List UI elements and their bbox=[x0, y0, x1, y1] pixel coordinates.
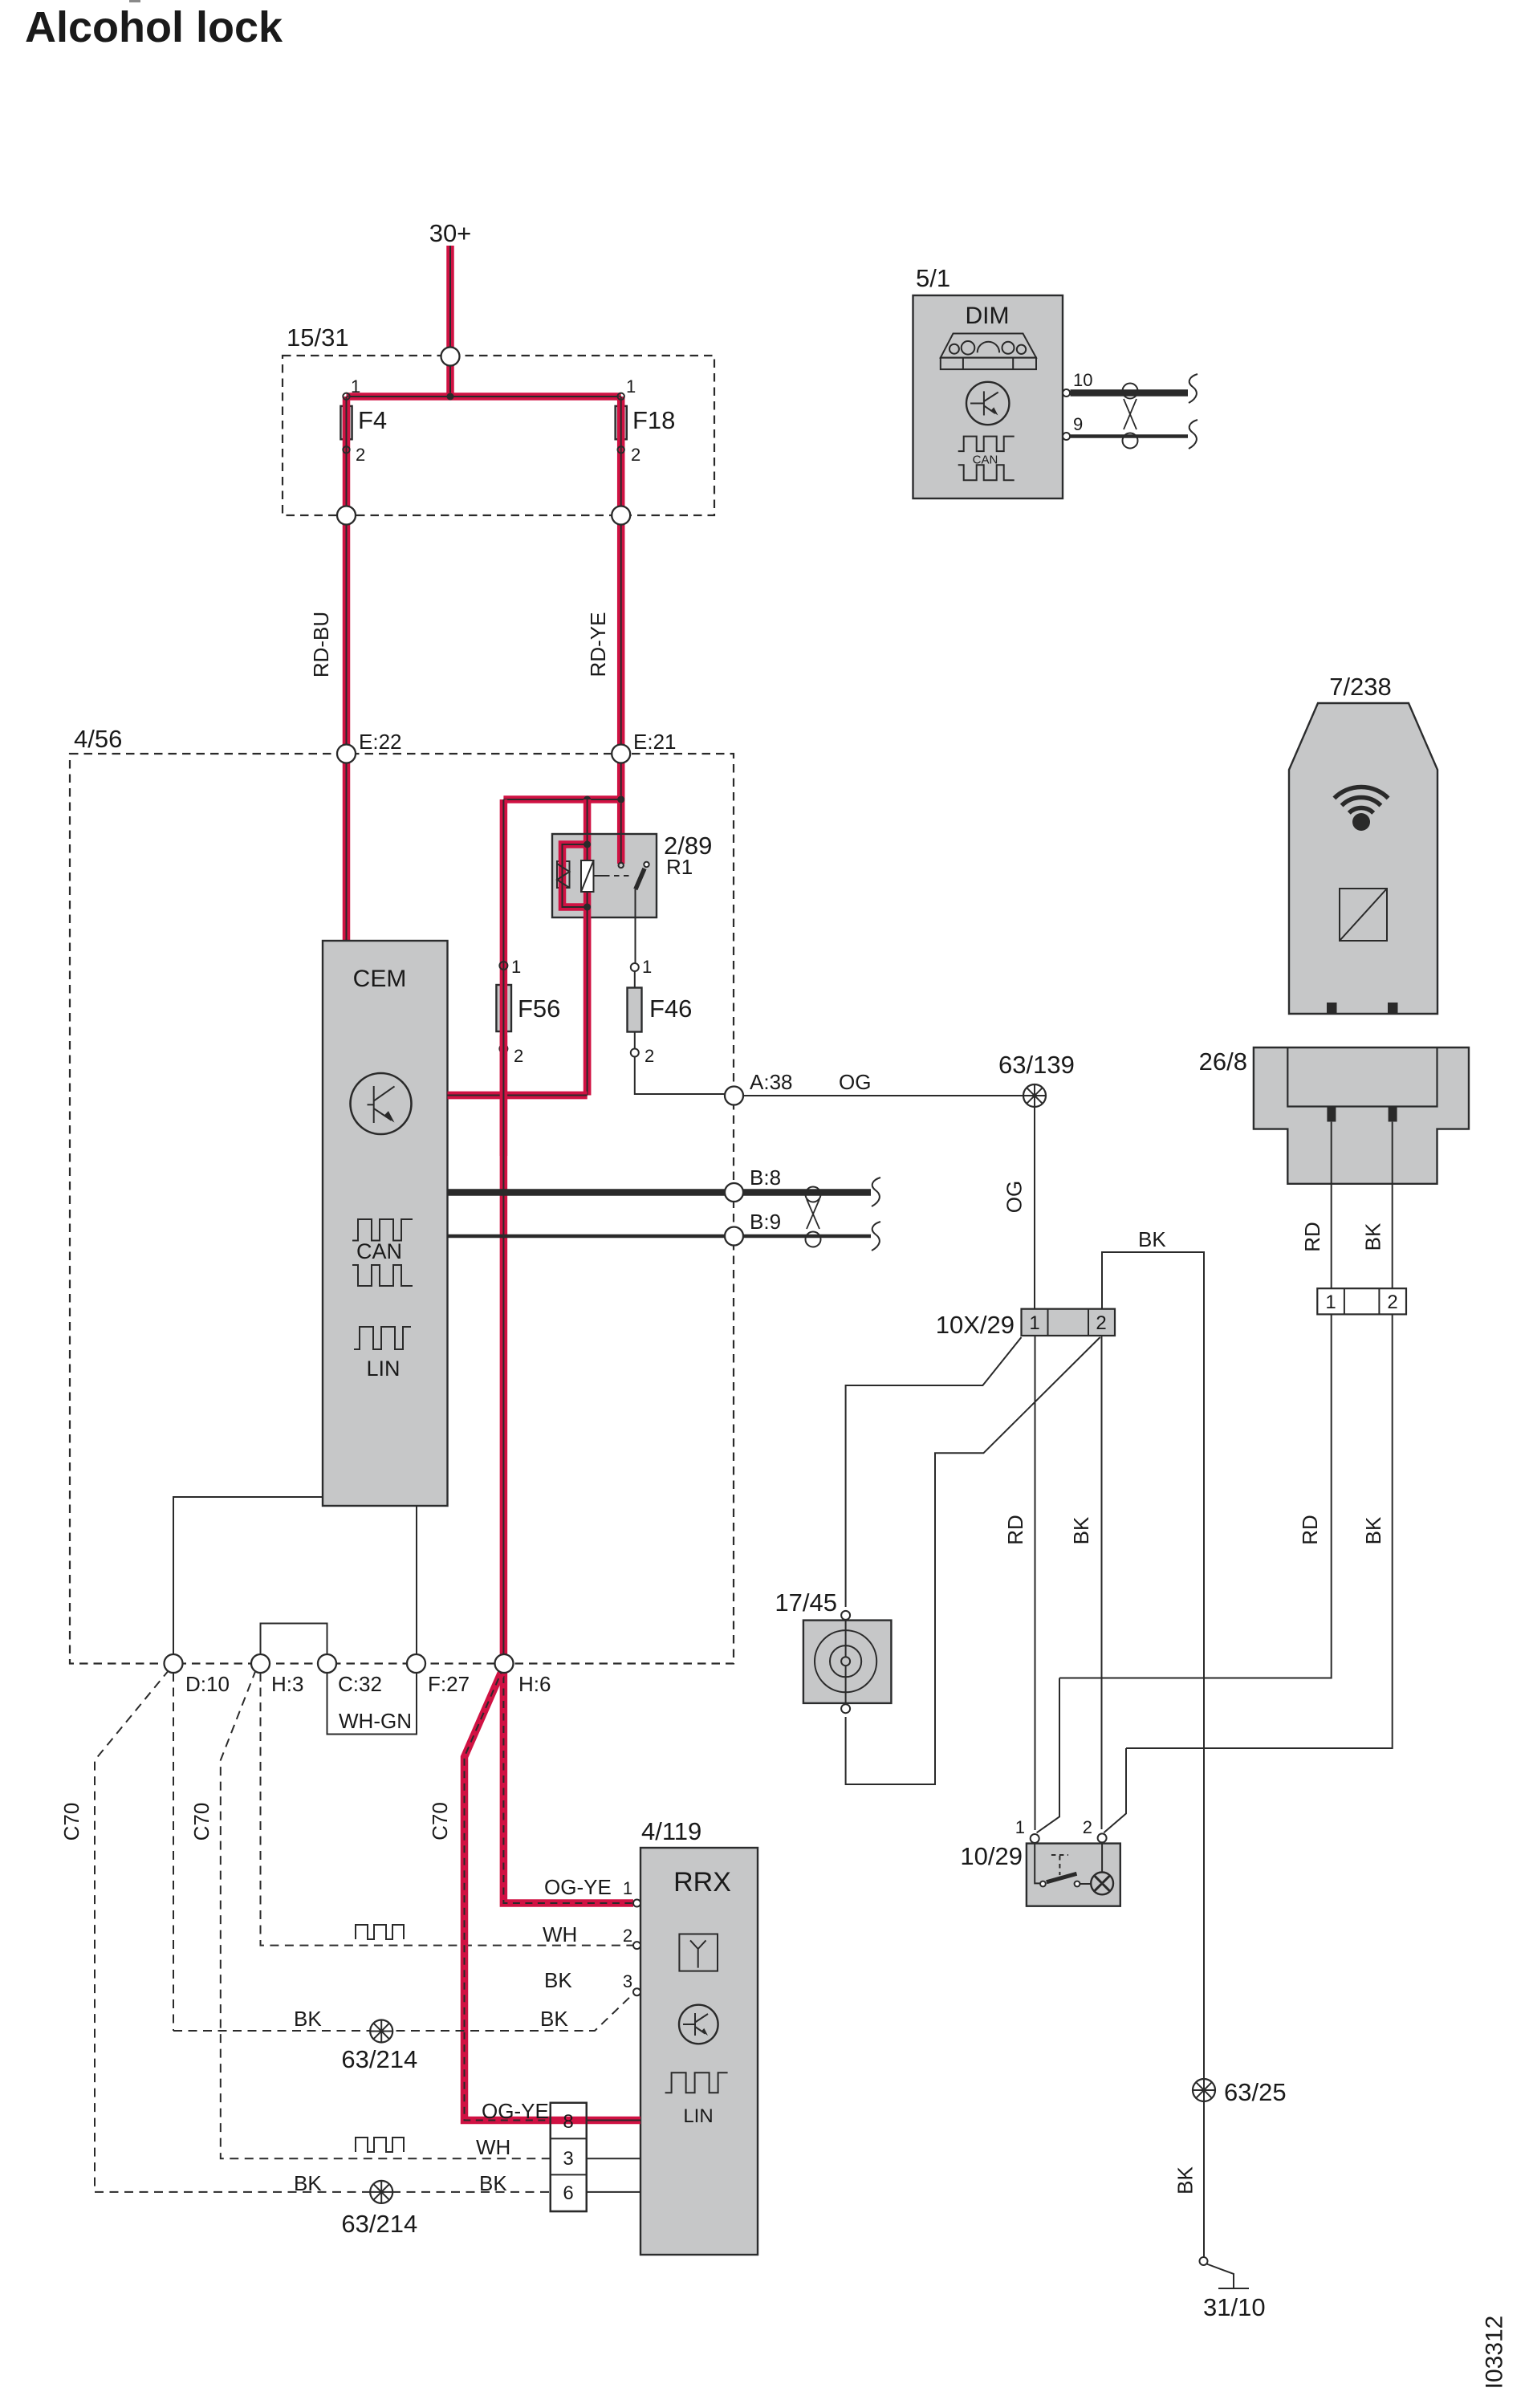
svg-text:RRX: RRX bbox=[673, 1867, 731, 1898]
svg-text:2: 2 bbox=[356, 445, 365, 465]
svg-text:2: 2 bbox=[514, 1046, 523, 1066]
twisted pair marker DIM bbox=[1123, 384, 1138, 449]
svg-text:WH-GN: WH-GN bbox=[339, 1709, 412, 1733]
svg-text:I03312: I03312 bbox=[1482, 2316, 1508, 2390]
svg-text:2: 2 bbox=[631, 445, 640, 465]
svg-text:A:38: A:38 bbox=[750, 1070, 793, 1094]
svg-text:5/1: 5/1 bbox=[916, 264, 950, 292]
wire OG-YE C70 branch from H:6 (RD) bbox=[465, 1667, 551, 2121]
svg-text:B:9: B:9 bbox=[750, 1210, 781, 1234]
svg-text:1: 1 bbox=[511, 957, 521, 977]
svg-text:RD: RD bbox=[1298, 1515, 1322, 1545]
relay actuator dashed link bbox=[594, 875, 605, 877]
wire pin 8 (RD) through strip to RRX bbox=[551, 2117, 640, 2125]
connector B:9 bbox=[725, 1227, 743, 1246]
junction dot bbox=[617, 796, 624, 803]
splice 63/214 (lower) bbox=[370, 2181, 392, 2203]
svg-text:C70: C70 bbox=[189, 1803, 213, 1841]
svg-text:BK: BK bbox=[1069, 1516, 1093, 1544]
7/238 radio icon bbox=[1334, 787, 1388, 812]
svg-text:D:10: D:10 bbox=[185, 1672, 230, 1696]
svg-text:CAN: CAN bbox=[356, 1239, 402, 1263]
connector B:8 bbox=[725, 1183, 743, 1202]
junction circles on 15/31 bottom edge bbox=[337, 506, 356, 525]
pin 9 bbox=[1063, 433, 1070, 440]
7/238 mirror square icon bbox=[1340, 889, 1387, 941]
svg-text:WH: WH bbox=[476, 2135, 510, 2159]
relay contact pin (from F18) bbox=[619, 863, 624, 868]
svg-text:E:21: E:21 bbox=[633, 730, 677, 754]
connector C:32 bbox=[318, 1654, 336, 1673]
wire F:27 to CEM bbox=[416, 1506, 417, 1654]
fuse F4 bbox=[340, 406, 352, 439]
svg-text:1: 1 bbox=[351, 376, 360, 397]
svg-text:BK: BK bbox=[294, 2007, 322, 2031]
RRX pin 2 bbox=[633, 1942, 640, 1949]
wire CAN low from pin 9 bbox=[1071, 434, 1189, 438]
svg-text:E:22: E:22 bbox=[359, 730, 402, 754]
svg-text:BK: BK bbox=[479, 2171, 507, 2195]
wire relay feed bus (RD) bbox=[503, 795, 620, 803]
svg-text:BK: BK bbox=[544, 1968, 572, 1992]
svg-text:1: 1 bbox=[642, 957, 652, 977]
svg-text:BK: BK bbox=[1138, 1227, 1166, 1251]
svg-text:Alcohol lock: Alcohol lock bbox=[25, 3, 283, 51]
svg-text:BK: BK bbox=[1361, 1222, 1385, 1251]
svg-text:2: 2 bbox=[1096, 1312, 1106, 1334]
svg-text:3: 3 bbox=[623, 1971, 632, 1991]
LIN wave on WH wire bbox=[356, 1925, 404, 1939]
wire 26/8 pin2 (BK) down bbox=[1126, 1122, 1393, 1748]
svg-text:BK: BK bbox=[294, 2171, 322, 2195]
wire OG from 63/139 to 10X/29 bbox=[1034, 1107, 1035, 1309]
svg-text:1: 1 bbox=[1015, 1817, 1025, 1837]
wire 10X/29 pin2 to 17/45 return bbox=[846, 1337, 1100, 1784]
svg-text:RD: RD bbox=[1300, 1222, 1324, 1252]
wire CEM relay feed redraw (RD core over crossing) bbox=[448, 1092, 588, 1100]
wire relay coil branch (RD) bbox=[448, 799, 588, 1096]
relay 2/89 R1 bbox=[552, 832, 712, 1096]
wire CAN high from pin 10 bbox=[1071, 389, 1189, 397]
RRX pin strip 8/3/6 bbox=[551, 2103, 587, 2211]
svg-text:BK: BK bbox=[1361, 1516, 1385, 1544]
26/8 pin 2 tab bbox=[1389, 1107, 1397, 1122]
relay armature resistor bbox=[581, 860, 594, 892]
wire C:32 to F:27 (WH-GN) bbox=[327, 1673, 417, 1735]
svg-text:F56: F56 bbox=[518, 995, 560, 1023]
cable break squiggle pin9 bbox=[1189, 420, 1198, 449]
svg-text:OG: OG bbox=[839, 1070, 871, 1094]
wire BK from 10X/29 pin2 up and over to 63/25 bbox=[1102, 1252, 1204, 2079]
ECU box 4/56 (dashed) bbox=[70, 754, 734, 1664]
RRX antenna icon bbox=[679, 1934, 718, 1971]
svg-text:63/25: 63/25 bbox=[1224, 2078, 1287, 2106]
wire 30+ feed (RD) bbox=[446, 246, 454, 397]
svg-text:1: 1 bbox=[1029, 1312, 1039, 1334]
wire pin 6 strip to RRX (BK) bbox=[587, 2191, 640, 2193]
wire 26/8 pin1 (RD) down bbox=[1059, 1122, 1332, 1678]
7/238 pin tabs bbox=[1327, 1003, 1337, 1014]
wire relay output bbox=[635, 889, 636, 967]
svg-text:B:8: B:8 bbox=[750, 1165, 781, 1190]
cable break squiggle B:9 bbox=[872, 1222, 880, 1251]
svg-text:C70: C70 bbox=[428, 1802, 452, 1841]
wire BK to ground bbox=[1203, 2101, 1205, 2257]
svg-text:6: 6 bbox=[563, 2182, 573, 2204]
svg-text:63/139: 63/139 bbox=[998, 1051, 1075, 1079]
svg-text:8: 8 bbox=[563, 2111, 573, 2133]
junction dot bbox=[584, 796, 591, 803]
relay switch blade bbox=[636, 868, 645, 889]
twisted pair marker B:8/B:9 bbox=[806, 1187, 821, 1247]
fuse F46 bbox=[635, 967, 725, 1094]
wire CAN high B:8 bbox=[448, 1189, 872, 1196]
svg-text:10/29: 10/29 bbox=[960, 1842, 1023, 1870]
connector H:3 bbox=[251, 1654, 270, 1673]
svg-text:CEM: CEM bbox=[353, 966, 407, 992]
wire H:3 to C:32 internal bbox=[261, 1624, 327, 1655]
svg-text:15/31: 15/31 bbox=[287, 323, 349, 352]
svg-text:LIN: LIN bbox=[366, 1357, 400, 1381]
RRX pin 1 bbox=[633, 1900, 640, 1907]
cable break squiggle pin10 bbox=[1189, 374, 1198, 403]
RRX pin 3 bbox=[633, 1988, 640, 1995]
svg-text:1: 1 bbox=[623, 1878, 632, 1898]
svg-text:OG-YE: OG-YE bbox=[482, 2099, 549, 2123]
svg-text:26/8: 26/8 bbox=[1199, 1047, 1247, 1076]
svg-text:BK: BK bbox=[540, 2007, 568, 2031]
wire bus to fuses (RD) bbox=[347, 393, 621, 401]
svg-text:2: 2 bbox=[1387, 1291, 1397, 1313]
wire BK dashed to pin strip 6 bbox=[95, 2191, 551, 2193]
DIM transistor symbol bbox=[966, 382, 1009, 425]
page edge artifact bbox=[129, 0, 140, 2]
svg-text:F18: F18 bbox=[632, 406, 675, 434]
wire C70 from D:10 (diagonal) bbox=[95, 1670, 169, 2192]
CEM LIN symbol bbox=[354, 1327, 411, 1349]
relay coil zigzag bbox=[557, 864, 570, 888]
splice 63/214 (upper) bbox=[370, 2020, 392, 2043]
svg-text:RD-YE: RD-YE bbox=[586, 612, 610, 677]
svg-text:R1: R1 bbox=[666, 855, 693, 879]
wire 10/29 pin2 alt path bbox=[1104, 1748, 1126, 1832]
svg-text:3: 3 bbox=[563, 2148, 573, 2170]
wire OG-YE from H:6 straight to RRX pin1 (RD) bbox=[503, 1664, 633, 1904]
ground 31/10 bbox=[1200, 2257, 1208, 2265]
redraw coil branch over relay body (RD) bbox=[563, 835, 588, 1096]
svg-text:4/56: 4/56 bbox=[74, 725, 122, 753]
26/8 pin 1 tab bbox=[1327, 1107, 1336, 1122]
battery junction on 15/31 border bbox=[441, 348, 460, 366]
wire from D:10 straight bbox=[173, 1673, 174, 2031]
svg-text:10X/29: 10X/29 bbox=[936, 1311, 1015, 1339]
svg-text:17/45: 17/45 bbox=[775, 1588, 837, 1617]
RRX LIN symbol bbox=[665, 2072, 728, 2093]
pin 10 bbox=[1063, 389, 1070, 397]
svg-text:2: 2 bbox=[645, 1046, 654, 1066]
svg-text:2: 2 bbox=[623, 1926, 632, 1946]
svg-text:F46: F46 bbox=[649, 995, 692, 1023]
relay switch pin bbox=[644, 862, 649, 867]
wire D:10 internal bbox=[173, 1497, 323, 1654]
junction dot bbox=[447, 393, 454, 401]
connector E:22 bbox=[337, 745, 356, 763]
svg-text:2: 2 bbox=[1083, 1817, 1092, 1837]
svg-text:OG: OG bbox=[1002, 1181, 1027, 1213]
svg-text:CAN: CAN bbox=[973, 454, 998, 467]
splice 63/25 bbox=[1193, 2079, 1215, 2101]
wire pin 3 strip to RRX (WH) bbox=[587, 2158, 640, 2159]
module 5/1 DIM bbox=[913, 295, 1063, 498]
connector H:6 bbox=[495, 1654, 514, 1673]
svg-text:BK: BK bbox=[1173, 2166, 1198, 2194]
connector A:38 bbox=[734, 1095, 1035, 1096]
DIM instrument cluster icon bbox=[941, 334, 1036, 370]
svg-text:F:27: F:27 bbox=[428, 1672, 470, 1696]
RRX transistor symbol bbox=[679, 2005, 718, 2044]
svg-text:9: 9 bbox=[1073, 414, 1083, 434]
wire CAN low B:9 bbox=[448, 1235, 872, 1239]
fuse box 15/31 (dashed) bbox=[283, 356, 714, 515]
svg-text:OG-YE: OG-YE bbox=[544, 1875, 612, 1899]
svg-text:63/214: 63/214 bbox=[341, 2045, 417, 2073]
fuse F18 bbox=[616, 406, 627, 439]
wire 10/29 pin1 alt path bbox=[1037, 1678, 1059, 1833]
svg-text:H:6: H:6 bbox=[518, 1672, 551, 1696]
svg-text:1: 1 bbox=[1325, 1291, 1336, 1313]
connector D:10 bbox=[165, 1654, 183, 1673]
wire BK dashed to pin 3 bbox=[173, 1994, 633, 2031]
svg-text:C:32: C:32 bbox=[338, 1672, 382, 1696]
wire 10X/29 pin1 to 17/45 bbox=[846, 1337, 1022, 1607]
wire 10X/29 pin2 down (BK) bbox=[1101, 1336, 1103, 1829]
LIN wave on lower WH wire bbox=[356, 2138, 404, 2152]
svg-text:LIN: LIN bbox=[683, 2105, 713, 2127]
svg-text:4/119: 4/119 bbox=[641, 1817, 701, 1845]
svg-text:RD-BU: RD-BU bbox=[309, 612, 333, 677]
wire from H:3 straight (WH) bbox=[261, 1673, 634, 1946]
connector E:21 bbox=[612, 745, 630, 763]
svg-text:10: 10 bbox=[1073, 370, 1092, 390]
CEM CAN symbol bbox=[352, 1219, 413, 1286]
svg-text:DIM: DIM bbox=[966, 303, 1010, 329]
fuse F56 bbox=[496, 985, 511, 1031]
junction dots bbox=[584, 841, 591, 848]
svg-text:30+: 30+ bbox=[429, 219, 472, 247]
wire 10X/29 pin1 down (RD) bbox=[1035, 1336, 1036, 1830]
svg-text:7/238: 7/238 bbox=[1329, 673, 1392, 701]
svg-text:RD: RD bbox=[1003, 1515, 1027, 1545]
svg-text:F4: F4 bbox=[358, 406, 387, 434]
connector F:27 bbox=[407, 1654, 425, 1673]
DIM CAN symbol bbox=[958, 437, 1015, 481]
CEM transistor symbol bbox=[351, 1073, 412, 1134]
relay coil body bbox=[557, 861, 570, 888]
svg-text:WH: WH bbox=[543, 1922, 577, 1946]
svg-text:C70: C70 bbox=[59, 1803, 83, 1841]
svg-text:63/214: 63/214 bbox=[341, 2210, 417, 2238]
svg-text:31/10: 31/10 bbox=[1203, 2293, 1266, 2321]
redraw E:21 feed into relay (RD) bbox=[617, 835, 625, 864]
26/8 pin number strip bbox=[1317, 1288, 1406, 1314]
wire C70 from H:3 (diagonal) bbox=[221, 1670, 551, 2158]
svg-text:1: 1 bbox=[626, 376, 636, 397]
cable break squiggle B:8 bbox=[872, 1178, 880, 1206]
CEM module bbox=[323, 941, 448, 1506]
svg-text:H:3: H:3 bbox=[271, 1672, 303, 1696]
